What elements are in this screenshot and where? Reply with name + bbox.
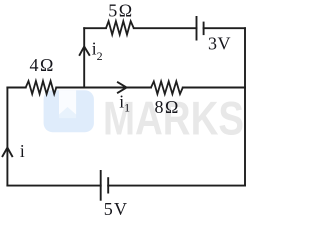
resistor 5ohm [106,21,134,34]
resistor 8ohm [151,81,183,94]
watermark logo [44,90,94,132]
svg-text:4Ω: 4Ω [30,55,55,75]
wire: right side [244,28,246,185]
battery 5V [101,170,109,201]
svg-text:8Ω: 8Ω [155,97,180,117]
wire: bottom branch [7,185,245,187]
svg-text:i: i [20,141,25,161]
wire: center vertical branch [83,28,85,87]
wire: top branch [84,27,245,29]
resistor 4ohm [26,81,57,94]
wire: middle branch [7,87,245,89]
battery 3V [197,16,204,41]
current arrow i [3,148,13,157]
svg-text:5V: 5V [104,199,128,219]
wire: left side [6,88,8,186]
current arrow i2 [80,47,90,55]
svg-text:3V: 3V [208,34,231,54]
svg-text:i2: i2 [92,39,103,63]
svg-text:5Ω: 5Ω [108,0,133,20]
current arrow i1 [118,82,127,92]
